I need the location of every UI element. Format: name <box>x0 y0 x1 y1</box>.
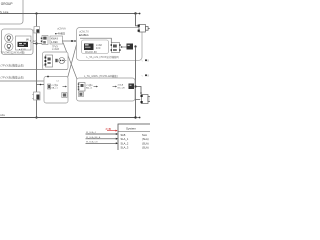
wire right bus lower segment <box>135 47 137 118</box>
svg-text:w9a: w9a <box>0 113 5 117</box>
node bottom junction <box>35 116 37 118</box>
svg-text:T_A2: T_A2 <box>30 39 37 43</box>
node top-left junction <box>35 12 37 14</box>
component dark square in D <box>62 93 67 98</box>
fuse F1 on vertical bus <box>34 27 40 34</box>
svg-text:8A_c1: 8A_c1 <box>52 87 59 90</box>
wire top bus y=13.5 <box>0 13 136 15</box>
svg-text:W_SLA_4: W_SLA_4 <box>86 131 97 134</box>
box E (right upper container) <box>77 28 143 61</box>
svg-text:≠=B: ≠=B <box>106 127 111 131</box>
IC U5 <box>79 83 86 92</box>
wire vertical bus x=36.5 <box>36 14 38 118</box>
wire diagonal D2 (to box D) <box>66 45 77 86</box>
svg-text:(%): (%) <box>43 65 47 67</box>
wire B to junction <box>33 43 37 45</box>
node junction T_A2 <box>35 42 37 44</box>
svg-text:(7FVX消L機能止め): (7FVX消L機能止め) <box>1 63 25 67</box>
motor M1 (upper circle) <box>5 34 13 42</box>
svg-text:4-DEC: 4-DEC <box>51 42 58 44</box>
box B (left device container) <box>2 29 34 55</box>
component dark blob <box>127 44 134 50</box>
svg-text:L=A03: L=A03 <box>52 48 60 51</box>
display dark panel in G <box>84 44 94 51</box>
svg-text:SLA_3: SLA_3 <box>121 146 129 150</box>
wire lane 2 <box>0 80 56 82</box>
table (signal list) <box>118 124 151 151</box>
svg-text:W4ACK-8D: W4ACK-8D <box>85 51 97 54</box>
module R1 (display block) <box>16 36 32 50</box>
svg-text:(7FVX消L機能止め): (7FVX消L機能止め) <box>1 75 25 79</box>
wire lane 1 <box>0 69 68 71</box>
wire arrow 1 into table <box>86 133 118 135</box>
motor M2 (lower circle) <box>5 42 13 50</box>
svg-text:8m_U8: 8m_U8 <box>118 88 126 90</box>
wire arrow inside D <box>63 86 67 88</box>
svg-text:4.8cA: 4.8cA <box>118 84 124 87</box>
svg-text:7FVZ#Ei実(M3ע6l機): 7FVZ#Ei実(M3ע6l機) <box>1 50 25 54</box>
box A (top-left group container) <box>0 0 23 24</box>
svg-text:uCNL7X: uCNL7X <box>79 29 89 33</box>
svg-text:System: System <box>126 126 137 130</box>
node I output junction <box>134 85 136 87</box>
IC U4 <box>48 84 51 89</box>
symbol speaker <box>55 59 57 62</box>
svg-text:SLA_1: SLA_1 <box>121 137 129 141</box>
svg-text:(SLA): (SLA) <box>142 141 149 145</box>
node bottom-right junction <box>134 116 136 118</box>
wire arrow inside I <box>94 86 98 88</box>
box G (inner block) <box>82 40 109 54</box>
wire I to connector J top pin <box>136 87 142 94</box>
svg-text:■A48EA: ■A48EA <box>79 33 89 37</box>
svg-text:L_TA_ncS, (7FVX実行機能8): L_TA_ncS, (7FVX実行機能8) <box>87 55 119 59</box>
node top-right junction <box>134 12 136 14</box>
wire to connector J lower pin <box>136 99 141 101</box>
svg-text:SLB: SLB <box>121 133 126 137</box>
node E output junction <box>134 45 136 47</box>
wire K to box E with junction <box>62 40 76 42</box>
wire arrow 2 into table <box>86 138 118 140</box>
component dark square in I <box>79 92 84 97</box>
svg-text:W_SLA_BE_A: W_SLA_BE_A <box>86 136 101 139</box>
component U2 (small IC right of junction) <box>37 43 43 45</box>
indicator circle with dot <box>59 58 65 64</box>
wire bottom bus y=117.5 <box>0 117 136 119</box>
wire D tap to vertical bus <box>37 84 45 86</box>
svg-text:(SLA): (SLA) <box>142 146 149 150</box>
svg-text:8A_c1: 8A_c1 <box>86 86 93 89</box>
node top-right stub end <box>139 13 141 15</box>
display dark panel <box>18 42 29 47</box>
connector T (top right) <box>139 25 146 33</box>
svg-text:SLA_2: SLA_2 <box>121 141 129 145</box>
svg-text:■-4A8日: ■-4A8日 <box>55 31 65 35</box>
IC H <box>112 43 120 53</box>
svg-text:L_TA_m60S, (7FVX1-ER機能): L_TA_m60S, (7FVX1-ER機能) <box>84 74 118 78</box>
wire H to blob <box>121 46 127 48</box>
box I (right lower container) <box>77 78 136 101</box>
wire right bus x=135.5 top segment <box>136 14 138 26</box>
svg-text:GROUP: GROUP <box>1 2 13 6</box>
connector J (bottom right) <box>142 95 149 104</box>
svg-text:uCNVA: uCNVA <box>57 26 66 30</box>
box D (lower-left module) <box>44 77 68 104</box>
svg-text:4=C: 4=C <box>96 47 101 50</box>
wire diagonal D1 (to box I) <box>63 43 79 84</box>
box C (middle module) <box>43 52 69 70</box>
wire arrow 3 into table <box>86 142 118 144</box>
svg-text:(SLA): (SLA) <box>142 137 149 141</box>
IC U3 <box>46 55 53 67</box>
box K (config block) <box>50 36 63 44</box>
svg-text:SLA: SLA <box>142 133 147 137</box>
fuse F2 on vertical bus <box>34 92 41 100</box>
svg-text:KWA 8: KWA 8 <box>51 37 59 40</box>
wire inside E <box>80 38 111 43</box>
middle cluster in I <box>113 86 117 88</box>
